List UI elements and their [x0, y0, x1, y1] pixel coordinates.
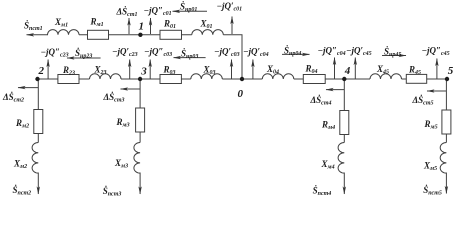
node 4: [342, 77, 346, 81]
resistor Rm4: [340, 111, 349, 135]
wire+arrow S_pst2: [37, 173, 39, 195]
arrow -jQ'c03: [231, 60, 233, 79]
resistor R45: [406, 74, 426, 83]
inductor X23: [90, 74, 122, 79]
inductor Xm2: [32, 143, 38, 174]
wire branch3: [139, 79, 141, 143]
svg-text:Xм1: Xм1: [54, 17, 68, 29]
resistor Rm2: [34, 110, 43, 134]
svg-text:3: 3: [140, 66, 147, 78]
arrow -jQ'c01: [231, 17, 233, 35]
wire main line X45-node5: [402, 78, 448, 80]
node 3: [138, 77, 142, 81]
node 5: [445, 77, 449, 81]
svg-text:−jQ″с23: −jQ″с23: [41, 47, 69, 59]
resistor R03: [160, 75, 181, 84]
inductor Xm1: [48, 30, 80, 35]
wire main line X03-X04: [222, 78, 262, 80]
svg-text:−jQ″с45: −jQ″с45: [422, 46, 450, 58]
svg-text:Ṡнр45: Ṡнр45: [384, 47, 401, 59]
svg-text:Ṡпст5: Ṡпст5: [423, 185, 442, 197]
inductor X04: [262, 74, 294, 79]
arrow -jQ''c01: [150, 18, 152, 34]
wire+arrow S_pst4: [343, 173, 345, 195]
arrow S_nr04: [282, 53, 310, 55]
arrow dS_st4: [326, 89, 344, 91]
resistor R04: [303, 75, 325, 84]
inductor X03: [191, 74, 223, 79]
svg-text:X45: X45: [376, 64, 389, 76]
arrow dS_st1: [128, 18, 130, 34]
inductor Xm5: [440, 143, 446, 174]
wire main line X23-X03: [121, 78, 191, 80]
arrow dS_st5: [427, 90, 446, 92]
arrow -jQ''c23: [47, 60, 49, 79]
svg-text:0: 0: [238, 88, 244, 100]
node 2: [35, 77, 39, 81]
resistor R01: [160, 30, 182, 39]
svg-text:Xм5: Xм5: [423, 161, 437, 173]
svg-text:R04: R04: [305, 64, 318, 76]
svg-text:X01: X01: [200, 19, 213, 31]
node 0: [240, 77, 244, 81]
svg-text:5: 5: [448, 65, 454, 77]
svg-text:X23: X23: [94, 65, 107, 77]
svg-text:2: 2: [38, 65, 45, 77]
wire branch4: [343, 79, 345, 143]
arrow -jQ'c45: [354, 58, 356, 79]
arrow S_nr01: [173, 10, 208, 12]
svg-text:X03: X03: [203, 65, 216, 77]
resistor R23: [58, 75, 79, 84]
resistor Rm3: [136, 108, 145, 132]
resistor Rm1: [88, 30, 109, 39]
inductor X01: [192, 30, 224, 35]
wire+arrow S_pst5: [445, 173, 447, 194]
svg-text:Ṡпст2: Ṡпст2: [13, 185, 32, 197]
arrow -jQ'c23: [129, 60, 131, 79]
svg-text:Ṡпст4: Ṡпст4: [313, 186, 332, 198]
arrow -jQ''c03: [149, 60, 151, 79]
svg-text:4: 4: [344, 65, 351, 77]
svg-text:Xм2: Xм2: [13, 159, 27, 171]
wire+arrow S_pst3: [139, 173, 141, 195]
svg-text:R03: R03: [163, 65, 176, 77]
svg-text:ΔṠст2: ΔṠст2: [2, 92, 24, 104]
wire top branch: [79, 34, 192, 36]
inductor Xm4: [338, 143, 344, 174]
svg-text:Ṡпст1: Ṡпст1: [24, 21, 43, 33]
wire top right + corner down to node 0: [223, 35, 242, 79]
wire top branch arrow S_pst1: [27, 34, 49, 36]
wire branch5: [445, 79, 447, 143]
wire main line segment 2-X23: [38, 78, 90, 80]
svg-text:−jQ′с45: −jQ′с45: [346, 46, 372, 58]
wire main line X04-X45: [294, 78, 370, 80]
node 1: [138, 33, 142, 37]
arrow -jQ''c45: [436, 59, 438, 79]
svg-text:X04: X04: [266, 64, 279, 76]
svg-text:Rм4: Rм4: [321, 120, 335, 132]
inductor Xm3: [134, 143, 140, 174]
svg-text:Xм4: Xм4: [321, 159, 335, 171]
svg-text:−jQ′с03: −jQ′с03: [214, 47, 240, 59]
inductor X45: [370, 74, 402, 79]
arrow -jQ''c04: [334, 58, 336, 79]
svg-text:Rм5: Rм5: [424, 119, 438, 131]
svg-text:Ṡнр01: Ṡнр01: [180, 2, 197, 14]
arrow dS_st2: [18, 87, 38, 89]
svg-text:−jQ′с04: −jQ′с04: [243, 47, 269, 59]
arrow -jQ''c04 left: [252, 60, 254, 79]
svg-text:Rм3: Rм3: [116, 117, 130, 129]
svg-text:Ṡнр04: Ṡнр04: [284, 46, 301, 58]
svg-text:R45: R45: [408, 65, 421, 77]
svg-text:ΔṠст4: ΔṠст4: [310, 95, 332, 107]
svg-text:−jQ′с01: −jQ′с01: [217, 1, 243, 13]
wire branch2: [37, 79, 39, 143]
arrow S_nr03: [174, 57, 206, 59]
arrow dS_st3: [121, 88, 141, 90]
svg-text:−jQ″с03: −jQ″с03: [144, 47, 172, 59]
svg-text:Ṡпст3: Ṡпст3: [103, 186, 122, 198]
svg-text:−jQ′с23: −jQ′с23: [112, 47, 138, 59]
svg-text:Rм1: Rм1: [90, 17, 104, 29]
svg-text:−jQ″с04: −jQ″с04: [318, 46, 346, 58]
svg-text:ΔṠст5: ΔṠст5: [412, 95, 434, 107]
svg-text:ΔṠст1: ΔṠст1: [116, 7, 138, 19]
arrow S_nr45: [382, 55, 406, 57]
svg-text:Ṡнр23: Ṡнр23: [75, 48, 92, 60]
svg-text:Rм2: Rм2: [15, 118, 29, 130]
svg-text:Ṡнр03: Ṡнр03: [181, 49, 198, 61]
svg-text:Xм3: Xм3: [114, 158, 128, 170]
svg-text:R23: R23: [62, 65, 75, 77]
svg-text:1: 1: [139, 21, 145, 33]
svg-text:ΔṠст3: ΔṠст3: [103, 92, 125, 104]
svg-text:R01: R01: [163, 19, 176, 31]
svg-text:−jQ″с01: −jQ″с01: [144, 6, 172, 18]
arrow S_nr23: [67, 57, 101, 59]
resistor Rm5: [442, 110, 451, 134]
